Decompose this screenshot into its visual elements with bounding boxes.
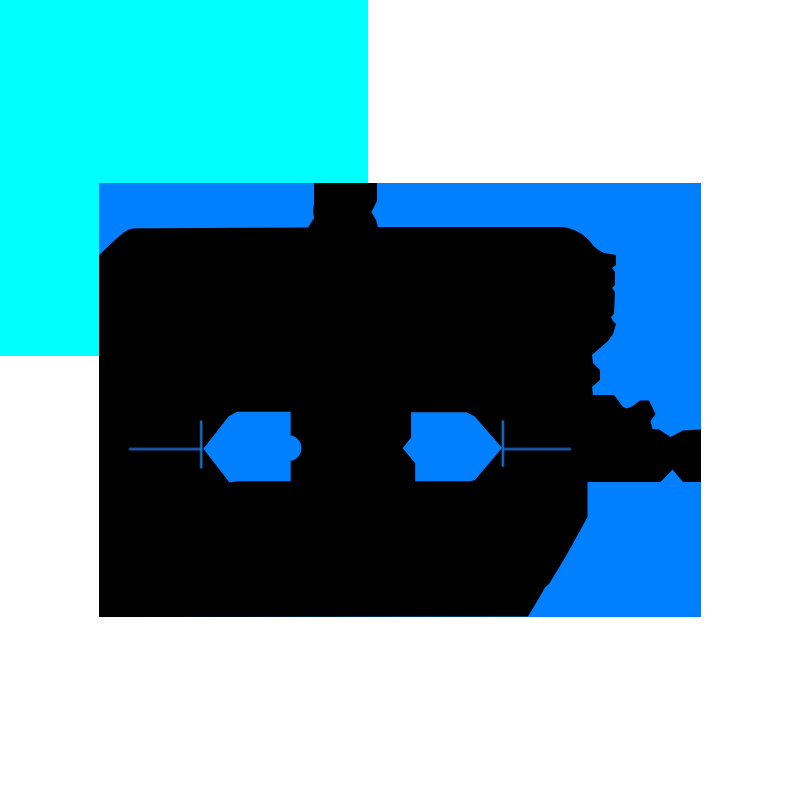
left dimension leader line	[129, 448, 202, 450]
right dimension leader line	[504, 448, 572, 450]
left dimension arrow	[203, 412, 301, 483]
black silhouette	[99, 183, 701, 617]
cyan square	[0, 0, 368, 356]
right dimension arrow	[403, 412, 502, 481]
blue panel	[99, 183, 701, 617]
left dimension tick	[200, 421, 202, 469]
right dimension tick	[502, 420, 504, 467]
